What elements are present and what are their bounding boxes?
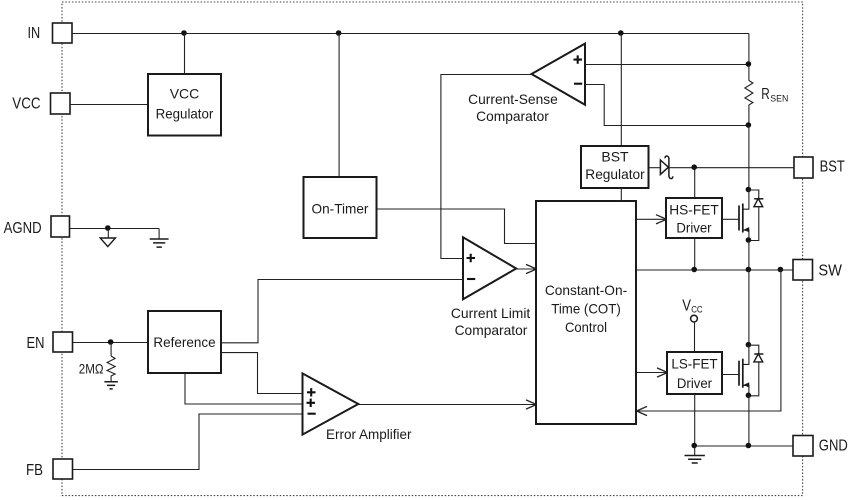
block BST Regulator bbox=[581, 146, 649, 188]
wire AGND pin bbox=[70, 228, 159, 230]
wire LS-FET Driver bottom to GND line bbox=[694, 395, 696, 447]
svg-text:Time (COT): Time (COT) bbox=[551, 301, 621, 317]
svg-text:Reference: Reference bbox=[153, 334, 216, 350]
wire Current-Sense plus input to RSEN top node bbox=[586, 64, 749, 66]
svg-text:Comparator: Comparator bbox=[476, 108, 549, 124]
wire BST Regulator output to diode bbox=[649, 167, 661, 169]
diode D1 (schottky) bbox=[660, 156, 672, 179]
svg-text:Regulator: Regulator bbox=[585, 166, 645, 182]
ground AGND triangle symbol bbox=[100, 229, 115, 247]
pin GND bbox=[793, 436, 848, 457]
node junction SW/FET rail bbox=[746, 267, 752, 273]
svg-text:AGND: AGND bbox=[4, 220, 42, 237]
resistor 2M ohm bbox=[79, 343, 115, 382]
wire IN to VCC Regulator top bbox=[184, 34, 186, 75]
wire Current Limit output to COT control bbox=[517, 268, 536, 270]
op-amp Current-Sense Comparator bbox=[468, 44, 585, 124]
node junction GND/LS source bbox=[746, 443, 752, 449]
svg-text:Current-Sense: Current-Sense bbox=[468, 91, 558, 107]
svg-text:Constant-On-: Constant-On- bbox=[545, 282, 628, 298]
wire Current-Sense output to Current Limit plus input bbox=[441, 75, 532, 259]
svg-text:BST: BST bbox=[601, 149, 629, 165]
svg-text:VCC: VCC bbox=[170, 86, 200, 102]
wire EN pin to Reference bbox=[73, 342, 149, 344]
node junction IN/On-Timer bbox=[336, 30, 342, 36]
ground below 2M resistor bbox=[104, 382, 117, 389]
block On-Timer bbox=[304, 177, 377, 238]
node junction SW/feedback bbox=[778, 267, 784, 273]
svg-text:Regulator: Regulator bbox=[156, 106, 214, 122]
wire Reference bottom output to Error Amplifier first plus input bbox=[222, 353, 304, 394]
resistor RSEN bbox=[745, 34, 789, 126]
node junction AGND bbox=[105, 225, 111, 231]
transistor HS-FET bbox=[723, 187, 764, 243]
pin VCC bbox=[12, 93, 70, 114]
node junction BST/HS driver bbox=[691, 164, 697, 170]
svg-text:BST: BST bbox=[820, 158, 845, 175]
node junction GND/LS driver bbox=[691, 443, 697, 449]
block VCC Regulator bbox=[148, 74, 221, 136]
wire IN to BST Regulator top bbox=[620, 34, 622, 147]
wire Reference top output to Current Limit Comparator minus input bbox=[222, 280, 464, 343]
ground AGND earth symbol bbox=[150, 229, 169, 248]
svg-text:Driver: Driver bbox=[677, 375, 713, 391]
op-amp Error Amplifier bbox=[303, 373, 412, 441]
wire LS-FET source to GND line bbox=[748, 396, 750, 446]
svg-text:V: V bbox=[682, 298, 691, 315]
wire GND line bbox=[695, 445, 794, 447]
wire diode to BST pin bbox=[669, 167, 795, 169]
block HS-FET Driver bbox=[666, 198, 722, 238]
wire Error Amplifier output to COT control bbox=[359, 404, 536, 406]
pin IN bbox=[28, 23, 73, 43]
node VCC supply bbox=[682, 298, 703, 353]
wire SW feedback to COT bbox=[638, 270, 781, 411]
svg-text:Driver: Driver bbox=[676, 220, 712, 236]
svg-text:LS-FET: LS-FET bbox=[671, 356, 718, 372]
ground power ground symbol bbox=[685, 446, 705, 463]
node junction RSEN top / CS plus bbox=[746, 61, 752, 67]
block Reference bbox=[148, 311, 221, 373]
svg-text:HS-FET: HS-FET bbox=[669, 202, 719, 218]
svg-text:IN: IN bbox=[28, 25, 41, 42]
svg-text:FB: FB bbox=[26, 462, 43, 479]
svg-text:SEN: SEN bbox=[770, 93, 788, 104]
pin AGND bbox=[4, 216, 70, 237]
node junction SW/HS driver bbox=[691, 267, 697, 273]
wire HS-FET source to SW line bbox=[748, 241, 750, 271]
pin EN bbox=[27, 332, 73, 352]
svg-text:Error Amplifier: Error Amplifier bbox=[326, 426, 412, 442]
wire BST line down to HS-FET Driver top bbox=[694, 168, 696, 199]
wire SW line bbox=[637, 269, 794, 271]
wire IN rail bbox=[73, 33, 749, 35]
svg-text:SW: SW bbox=[818, 262, 842, 279]
pin FB bbox=[26, 459, 73, 479]
svg-text:CC: CC bbox=[691, 304, 703, 315]
svg-text:On-Timer: On-Timer bbox=[312, 200, 369, 216]
wire BST Regulator bottom to COT top bbox=[620, 189, 622, 202]
wire HS-FET Driver bottom to SW line bbox=[694, 239, 696, 271]
node junction RSEN bottom / CS minus bbox=[746, 122, 752, 128]
wire Current-Sense minus input to RSEN bottom node bbox=[586, 85, 749, 126]
node junction IN/BST regulator bbox=[618, 30, 624, 36]
pin SW bbox=[793, 260, 843, 281]
svg-text:Comparator: Comparator bbox=[455, 322, 528, 338]
svg-text:Control: Control bbox=[565, 319, 607, 335]
transistor LS-FET bbox=[723, 342, 764, 398]
block Constant-On-Time (COT) Control bbox=[536, 201, 636, 424]
wire VCC pin to VCC Regulator bbox=[71, 104, 149, 106]
wire On-Timer output to COT control bbox=[377, 209, 537, 244]
wire FB pin to Error Amplifier minus input bbox=[73, 414, 303, 470]
pin BST bbox=[794, 157, 845, 178]
wire COT to LS-FET Driver bbox=[637, 372, 667, 374]
svg-text:GND: GND bbox=[819, 437, 848, 454]
svg-text:VCC: VCC bbox=[12, 95, 40, 112]
svg-text:EN: EN bbox=[27, 335, 45, 352]
wire IN to On-Timer top bbox=[338, 34, 340, 178]
wire RSEN bottom to HS-FET drain bbox=[748, 126, 750, 191]
wire Reference bottom to Error Amplifier second plus input bbox=[185, 374, 303, 405]
svg-text:R: R bbox=[761, 86, 770, 103]
node junction EN/2M resistor bbox=[108, 339, 114, 345]
block LS-FET Driver bbox=[667, 352, 722, 394]
wire COT to HS-FET Driver bbox=[637, 218, 666, 220]
wire SW to LS-FET drain bbox=[748, 270, 750, 345]
op-amp Current Limit Comparator bbox=[451, 237, 530, 337]
node junction IN/VCCreg bbox=[181, 30, 187, 36]
svg-text:Current Limit: Current Limit bbox=[451, 305, 530, 321]
svg-text:2MΩ: 2MΩ bbox=[79, 360, 104, 376]
